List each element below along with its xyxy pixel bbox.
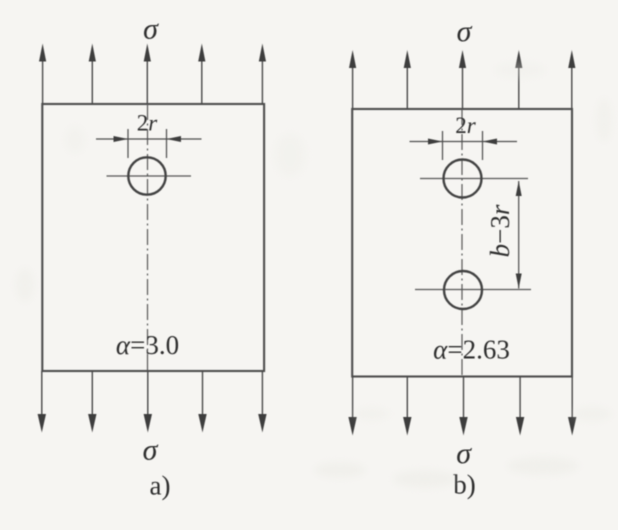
svg-text:a): a) xyxy=(150,471,171,501)
2r dimension line b xyxy=(410,141,518,143)
b-3r dimension line xyxy=(518,181,520,289)
2r extension line left a xyxy=(127,129,129,158)
svg-text:σ: σ xyxy=(143,434,159,467)
svg-text:α=2.63: α=2.63 xyxy=(433,335,510,365)
lower hole b xyxy=(444,271,482,309)
hole a xyxy=(128,157,165,194)
2r dimension line a xyxy=(96,138,202,140)
tension arrow down a x=148 xyxy=(144,371,152,433)
tension arrow up b x=572 xyxy=(568,50,575,109)
tension arrow up b x=407 xyxy=(404,50,411,109)
tension arrow down a x=262 xyxy=(258,371,266,433)
tension arrow down b x=353 xyxy=(348,377,356,436)
tension arrow up a x=92 xyxy=(89,44,96,105)
vertical centerline plate b xyxy=(461,109,463,377)
tension arrow down b x=407 xyxy=(403,377,411,436)
svg-text:b−3r: b−3r xyxy=(485,204,515,257)
tension arrow down b x=572 xyxy=(568,377,576,436)
horizontal centerline upper hole b xyxy=(420,178,528,180)
svg-text:σ: σ xyxy=(457,15,473,48)
tension arrow down a x=92 xyxy=(88,371,96,433)
b-3r dim arrowhead top xyxy=(516,181,522,196)
tension arrow down a x=202 xyxy=(198,371,206,433)
2r dim arrowhead left b xyxy=(428,139,443,145)
svg-text:b): b) xyxy=(453,470,476,500)
2r extension line right b xyxy=(482,131,484,160)
tension arrow down b x=520 xyxy=(516,377,524,436)
vertical centerline plate a xyxy=(147,104,149,371)
2r extension line left b xyxy=(442,131,444,160)
tension arrow down b x=464 xyxy=(459,377,467,436)
tension arrow up a x=43 xyxy=(39,44,46,105)
upper hole b xyxy=(444,160,482,198)
2r dim arrowhead right b xyxy=(483,139,498,145)
tension arrow up a x=262 xyxy=(259,44,266,105)
svg-text:2r: 2r xyxy=(455,113,477,138)
b-3r dim arrowhead bottom xyxy=(516,274,522,289)
tension arrow up a x=202 xyxy=(198,44,205,105)
tension arrow up b x=353 xyxy=(349,50,356,109)
tension arrow up a x=147 xyxy=(144,44,151,105)
plate b outline xyxy=(352,109,572,377)
2r extension line right a xyxy=(166,129,168,158)
tension arrow down a x=42 xyxy=(38,371,46,433)
2r dim arrowhead right a xyxy=(167,136,182,142)
svg-text:σ: σ xyxy=(143,13,159,46)
plate a outline xyxy=(42,104,264,371)
2r dim arrowhead left a xyxy=(114,136,129,142)
tension arrow up b x=519 xyxy=(515,50,522,109)
svg-text:2r: 2r xyxy=(137,111,159,136)
horizontal centerline lower hole b xyxy=(415,289,531,291)
horizontal centerline hole a xyxy=(107,175,192,177)
svg-text:σ: σ xyxy=(456,437,472,470)
tension arrow up b x=462 xyxy=(459,50,466,109)
svg-text:α=3.0: α=3.0 xyxy=(116,330,179,360)
